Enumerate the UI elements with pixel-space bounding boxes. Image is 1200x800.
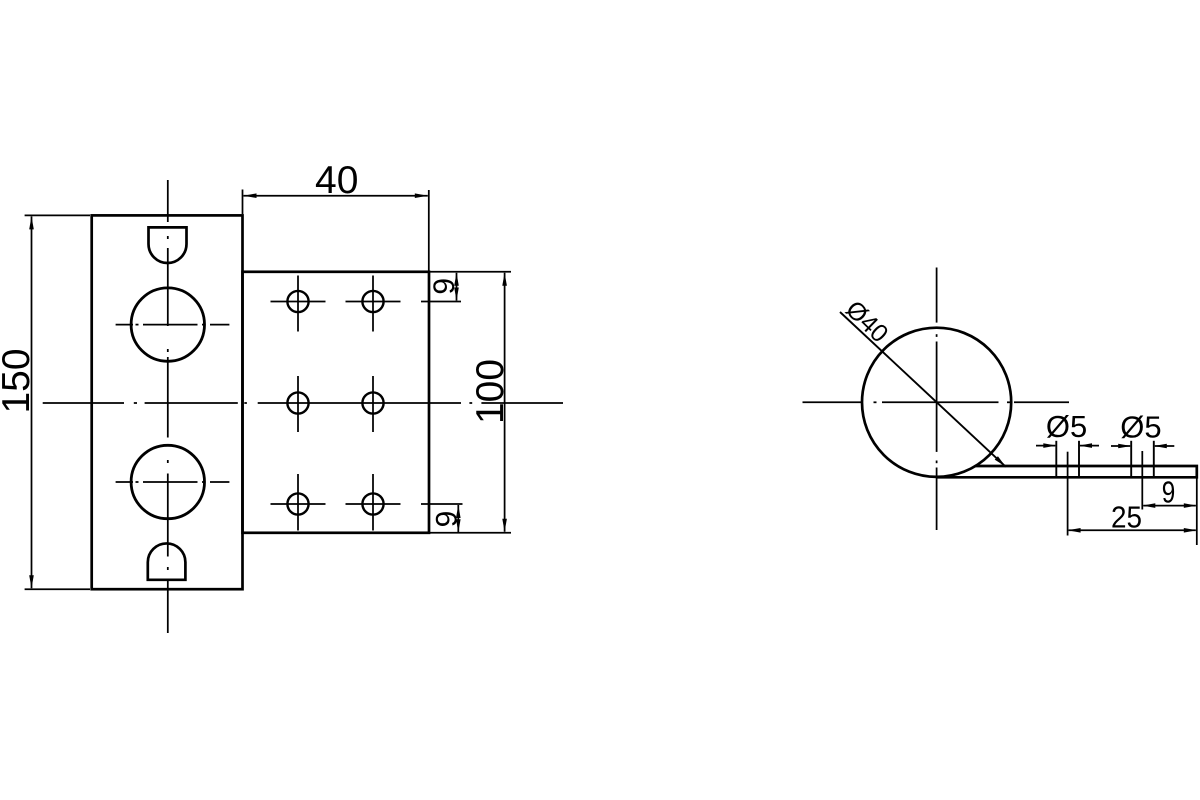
dimension 100 line with arrows <box>504 273 506 532</box>
svg-text:100: 100 <box>469 359 512 424</box>
small hole r1c1 <box>287 291 308 312</box>
svg-text:Ø5: Ø5 <box>1120 410 1161 445</box>
small hole r2c2 <box>362 392 383 413</box>
dimension 40 extension lines <box>242 190 244 215</box>
dimension 100 extension lines <box>430 271 511 273</box>
svg-text:9: 9 <box>428 278 461 295</box>
hole centermarks row2 <box>297 376 299 432</box>
dimension Ø5 hole1 arrows <box>1036 445 1055 447</box>
small hole r1c2 <box>362 291 383 312</box>
svg-text:Ø5: Ø5 <box>1046 409 1087 444</box>
horizontal centerline of left view (middle hole row) <box>43 402 124 404</box>
vertical centerline of left view <box>167 180 169 222</box>
tall plate outline <box>92 215 243 589</box>
cylinder circle <box>862 328 1011 477</box>
horizontal centerline of cylinder <box>803 401 862 403</box>
dimension 25 line with arrows <box>1069 529 1196 531</box>
horizontal centerline of bottom big circle <box>116 481 133 483</box>
svg-text:40: 40 <box>315 159 358 202</box>
hole centermarks row1 <box>271 301 326 303</box>
dimension 9 top extension line <box>421 301 461 303</box>
top big circle <box>131 288 204 361</box>
bar hole 1 centerline <box>1067 452 1069 536</box>
bottom U-notch <box>148 543 186 579</box>
dimension Ø5 hole2 arrows <box>1111 445 1130 447</box>
small hole r2c1 <box>287 392 308 413</box>
horizontal centerline of top big circle <box>116 324 133 326</box>
bottom big circle <box>131 445 204 518</box>
svg-text:Ø40: Ø40 <box>840 295 893 348</box>
dimension 9 top line with arrows <box>456 273 458 301</box>
bar hole 2 centerline <box>1141 451 1143 510</box>
svg-text:150: 150 <box>0 348 38 413</box>
dimension 9 bottom line with arrows <box>457 505 459 532</box>
hole centermarks row3 <box>271 503 326 505</box>
vertical centerline of cylinder <box>936 268 938 323</box>
svg-text:25: 25 <box>1111 500 1142 535</box>
svg-text:9: 9 <box>1162 475 1176 510</box>
dimension 9 right line with arrows <box>1143 505 1196 507</box>
bar right edge extension line <box>1196 478 1198 545</box>
mounting plate outline (right extension) <box>243 272 430 533</box>
bar hole 1 edges <box>1055 441 1057 476</box>
small hole r3c2 <box>362 493 383 514</box>
svg-text:9: 9 <box>431 511 464 528</box>
dimension 40 line with arrows <box>244 195 428 197</box>
small hole r3c1 <box>287 493 308 514</box>
diameter leader line Ø40 <box>840 312 1006 467</box>
bar hole 2 edges <box>1130 441 1132 476</box>
top U-notch <box>149 227 187 263</box>
dimension 150 line with arrows <box>31 216 33 588</box>
dimension 9 bottom extension line <box>421 503 463 505</box>
dimension 150 extension lines <box>25 214 90 216</box>
flat bar outline <box>937 466 1197 477</box>
